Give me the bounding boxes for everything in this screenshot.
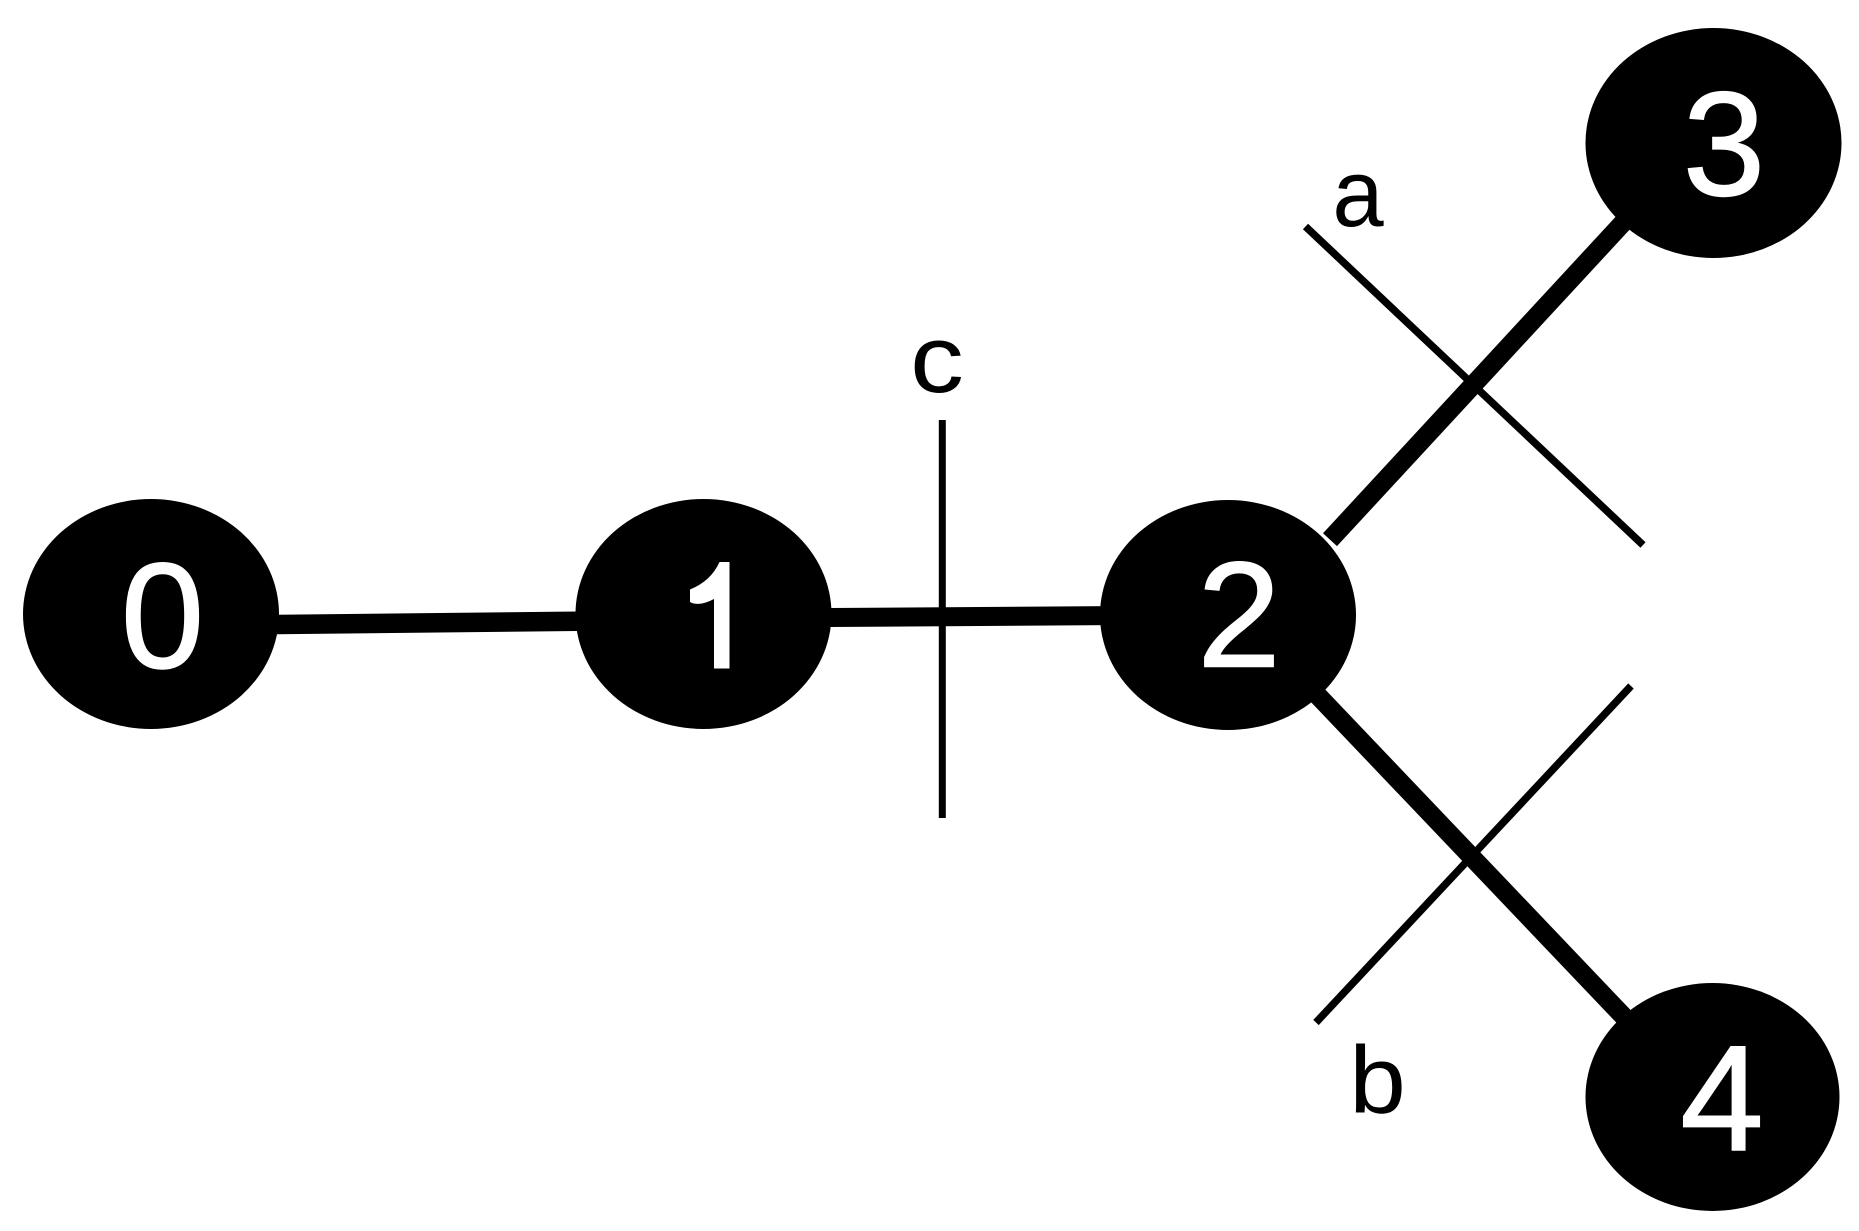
- svg-text:4: 4: [1680, 1014, 1763, 1182]
- svg-text:b: b: [1349, 1026, 1406, 1134]
- svg-text:3: 3: [1683, 62, 1765, 227]
- label c: [910, 305, 964, 412]
- cut line a: [1306, 227, 1644, 546]
- edge 2-4: [1290, 666, 1650, 1044]
- svg-text:2: 2: [1197, 531, 1280, 699]
- label b: [1349, 1026, 1406, 1134]
- edge 0-1: [140, 620, 715, 626]
- cut line b: [1316, 686, 1631, 1023]
- edge 1-2: [790, 615, 1160, 618]
- cut line c: [939, 420, 946, 818]
- node 3: [1586, 28, 1842, 258]
- node 2: [1100, 500, 1356, 730]
- edge 2-3: [1330, 194, 1650, 540]
- label a: [1332, 139, 1384, 246]
- node 0: [23, 499, 279, 729]
- svg-text:a: a: [1332, 139, 1384, 246]
- node 1: [576, 499, 832, 729]
- svg-text:c: c: [910, 305, 964, 412]
- svg-text:0: 0: [121, 532, 204, 700]
- node 4: [1586, 983, 1840, 1211]
